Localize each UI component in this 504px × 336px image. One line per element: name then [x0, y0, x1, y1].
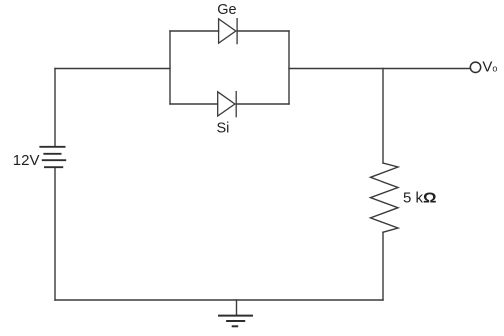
- svg-text:5 kΩ: 5 kΩ: [403, 190, 437, 207]
- svg-text:12V: 12V: [13, 152, 40, 169]
- svg-text:Ge: Ge: [217, 2, 236, 18]
- svg-text:Vo: Vo: [482, 59, 497, 76]
- svg-text:Si: Si: [217, 121, 230, 137]
